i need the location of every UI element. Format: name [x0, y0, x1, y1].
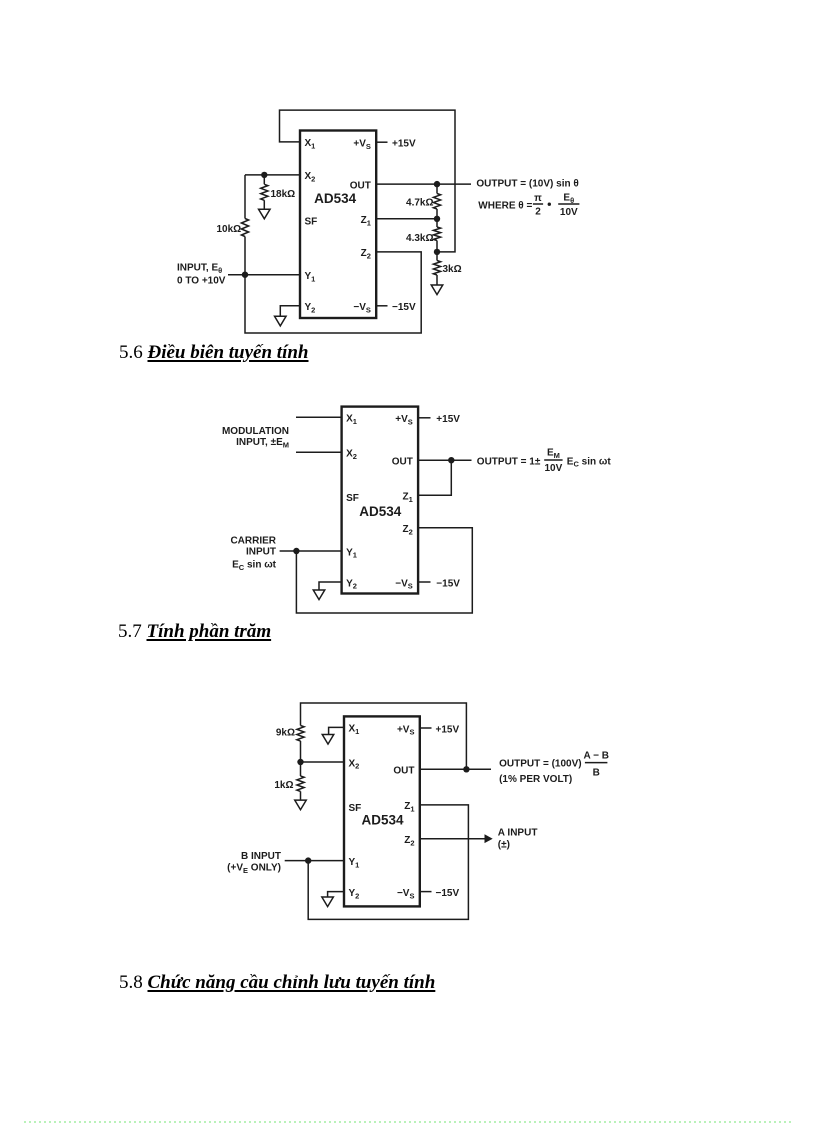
svg-text:−15V: −15V — [436, 578, 460, 589]
wire +VS stub — [376, 141, 387, 143]
svg-text:AD534: AD534 — [361, 813, 404, 828]
section heading 5.7 — [118, 621, 271, 643]
wire X2 input c3 — [301, 761, 345, 763]
wire -VS stub c2 — [418, 581, 430, 583]
svg-text:OUT: OUT — [393, 766, 414, 777]
svg-text:SF: SF — [349, 803, 362, 814]
wire OUT c2 — [418, 459, 471, 461]
op-amp U1 AD534 (circuit 1) body — [300, 131, 376, 319]
wire Z1 up to OUT c2 — [418, 460, 451, 495]
svg-text:+15V: +15V — [436, 724, 460, 735]
svg-text:Eθ: Eθ — [563, 193, 574, 205]
wire Y1 input — [228, 274, 300, 276]
junction OUT node c3 — [463, 766, 469, 772]
wire +VS stub c3 — [420, 727, 432, 729]
resistor R6 9k — [297, 726, 304, 763]
svg-text:B INPUT: B INPUT — [241, 851, 281, 862]
svg-text:+15V: +15V — [436, 414, 460, 425]
junction X2/9k/1k node — [297, 759, 303, 765]
svg-text:A INPUT: A INPUT — [498, 827, 538, 838]
svg-text:INPUT, ±EM: INPUT, ±EM — [236, 437, 289, 449]
wire X1 ground stub c3 — [329, 727, 344, 734]
footer dotted line — [24, 1121, 792, 1123]
svg-text:EM: EM — [547, 448, 560, 460]
wire -VS stub c3 — [420, 891, 432, 893]
resistor R2 10k — [241, 219, 248, 237]
wire Z1 to chain — [376, 218, 437, 220]
svg-text:B: B — [593, 767, 600, 778]
svg-text:18kΩ: 18kΩ — [271, 189, 296, 200]
svg-text:(±): (±) — [498, 840, 510, 851]
svg-text:EC sin ωt: EC sin ωt — [232, 560, 277, 572]
svg-text:3kΩ: 3kΩ — [443, 264, 462, 275]
svg-text:A − B: A − B — [583, 750, 608, 761]
wire X1 input c2 — [296, 416, 342, 418]
svg-text:CARRIER: CARRIER — [230, 536, 276, 547]
svg-text:−15V: −15V — [436, 888, 460, 899]
ground at X1 c3 — [322, 735, 334, 745]
ground at Y2 — [275, 316, 287, 326]
junction Y1 node c2 — [293, 548, 299, 554]
ground at Y2 c2 — [313, 590, 325, 600]
op-amp U2 AD534 (circuit 2) body — [342, 407, 419, 594]
resistor R5 3k — [433, 252, 440, 285]
junction Y1 node — [242, 272, 248, 278]
wire Z2 to A input c3 — [420, 838, 485, 840]
ground below R5 — [431, 285, 443, 295]
svg-text:AD534: AD534 — [359, 504, 402, 519]
wire X2 to left vertical node — [245, 174, 300, 176]
fraction bar EM/10V c2 — [544, 459, 562, 461]
svg-text:SF: SF — [305, 217, 318, 228]
junction OUT node — [434, 181, 440, 187]
resistor R7 1k — [297, 762, 304, 800]
arrowhead A input — [485, 834, 493, 843]
svg-text:−15V: −15V — [392, 302, 416, 313]
junction Z1 node — [434, 216, 440, 222]
svg-text:MODULATION: MODULATION — [222, 426, 289, 437]
svg-text:INPUT: INPUT — [246, 547, 276, 558]
svg-text:10V: 10V — [545, 463, 563, 474]
wire Y2 ground stub c2 — [319, 582, 342, 590]
wire left vertical to Y1 and bottom — [245, 237, 421, 334]
wire Y2 ground stub — [280, 306, 300, 317]
wire -VS stub — [376, 305, 387, 307]
wire X1 feedback to top and right down to Z2 node — [280, 110, 456, 252]
wire OUT to output — [376, 183, 471, 185]
svg-text:9kΩ: 9kΩ — [276, 727, 295, 738]
svg-text:WHERE θ =: WHERE θ = — [478, 201, 532, 212]
junction OUT node c2 — [448, 457, 454, 463]
resistor R1 18k — [261, 175, 268, 209]
svg-text:OUTPUT = 1±: OUTPUT = 1± — [477, 456, 541, 467]
resistor R4 4.3k — [433, 219, 440, 252]
resistor R3 4.7k — [433, 184, 440, 219]
svg-text:4.3kΩ: 4.3kΩ — [406, 233, 433, 244]
svg-text:(1% PER VOLT): (1% PER VOLT) — [499, 774, 572, 785]
svg-text:2: 2 — [535, 207, 541, 218]
wire +VS stub c2 — [418, 417, 430, 419]
ground below R1 — [259, 209, 271, 219]
svg-text:10V: 10V — [560, 207, 578, 218]
svg-text:0 TO +10V: 0 TO +10V — [177, 276, 226, 287]
wire Y1 input c3 — [285, 860, 344, 862]
wire X2 input c2 — [296, 451, 342, 453]
wire left vertical X2-Y1 upper — [244, 175, 246, 219]
junction Z2/3k node — [434, 249, 440, 255]
wire OUT c3 — [420, 768, 491, 770]
wire Y1 input c2 — [280, 550, 342, 552]
junction X2/18k node — [261, 172, 267, 178]
svg-text:+15V: +15V — [392, 139, 416, 150]
svg-text:INPUT, Eθ: INPUT, Eθ — [177, 263, 222, 275]
svg-text:(+VE ONLY): (+VE ONLY) — [227, 863, 281, 875]
svg-text:π: π — [534, 193, 542, 204]
svg-text:EC sin ωt: EC sin ωt — [567, 456, 612, 468]
op-amp U3 AD534 (circuit 3) body — [344, 716, 420, 906]
wire Y2 ground stub c3 — [328, 892, 344, 897]
wire Z1 feedback to Y1 c3 — [308, 805, 468, 920]
svg-text:4.7kΩ: 4.7kΩ — [406, 197, 433, 208]
wire Z2 feedback to Y1 c2 — [296, 528, 472, 613]
ground at Y2 c3 — [322, 897, 334, 907]
svg-text:AD534: AD534 — [314, 191, 357, 206]
svg-text:OUT: OUT — [392, 457, 413, 468]
junction Y1 node c3 — [305, 857, 311, 863]
ground below R7 — [295, 800, 307, 810]
svg-text:1kΩ: 1kΩ — [274, 780, 293, 791]
svg-text:OUTPUT = (100V): OUTPUT = (100V) — [499, 758, 582, 769]
svg-text:OUT: OUT — [350, 180, 371, 191]
svg-text:SF: SF — [346, 493, 359, 504]
fraction bar A-B/B c3 — [585, 762, 608, 764]
fraction bar E/10V — [558, 203, 579, 205]
svg-text:10kΩ: 10kΩ — [216, 224, 241, 235]
svg-text:OUTPUT = (10V) sin θ: OUTPUT = (10V) sin θ — [476, 178, 578, 189]
wire top feedback 9k to OUT c3 — [301, 703, 467, 769]
section heading 5.8 — [119, 972, 435, 994]
fraction bar pi/2 — [533, 203, 543, 205]
multiply dot — [548, 203, 551, 206]
section heading 5.6 — [119, 342, 309, 364]
